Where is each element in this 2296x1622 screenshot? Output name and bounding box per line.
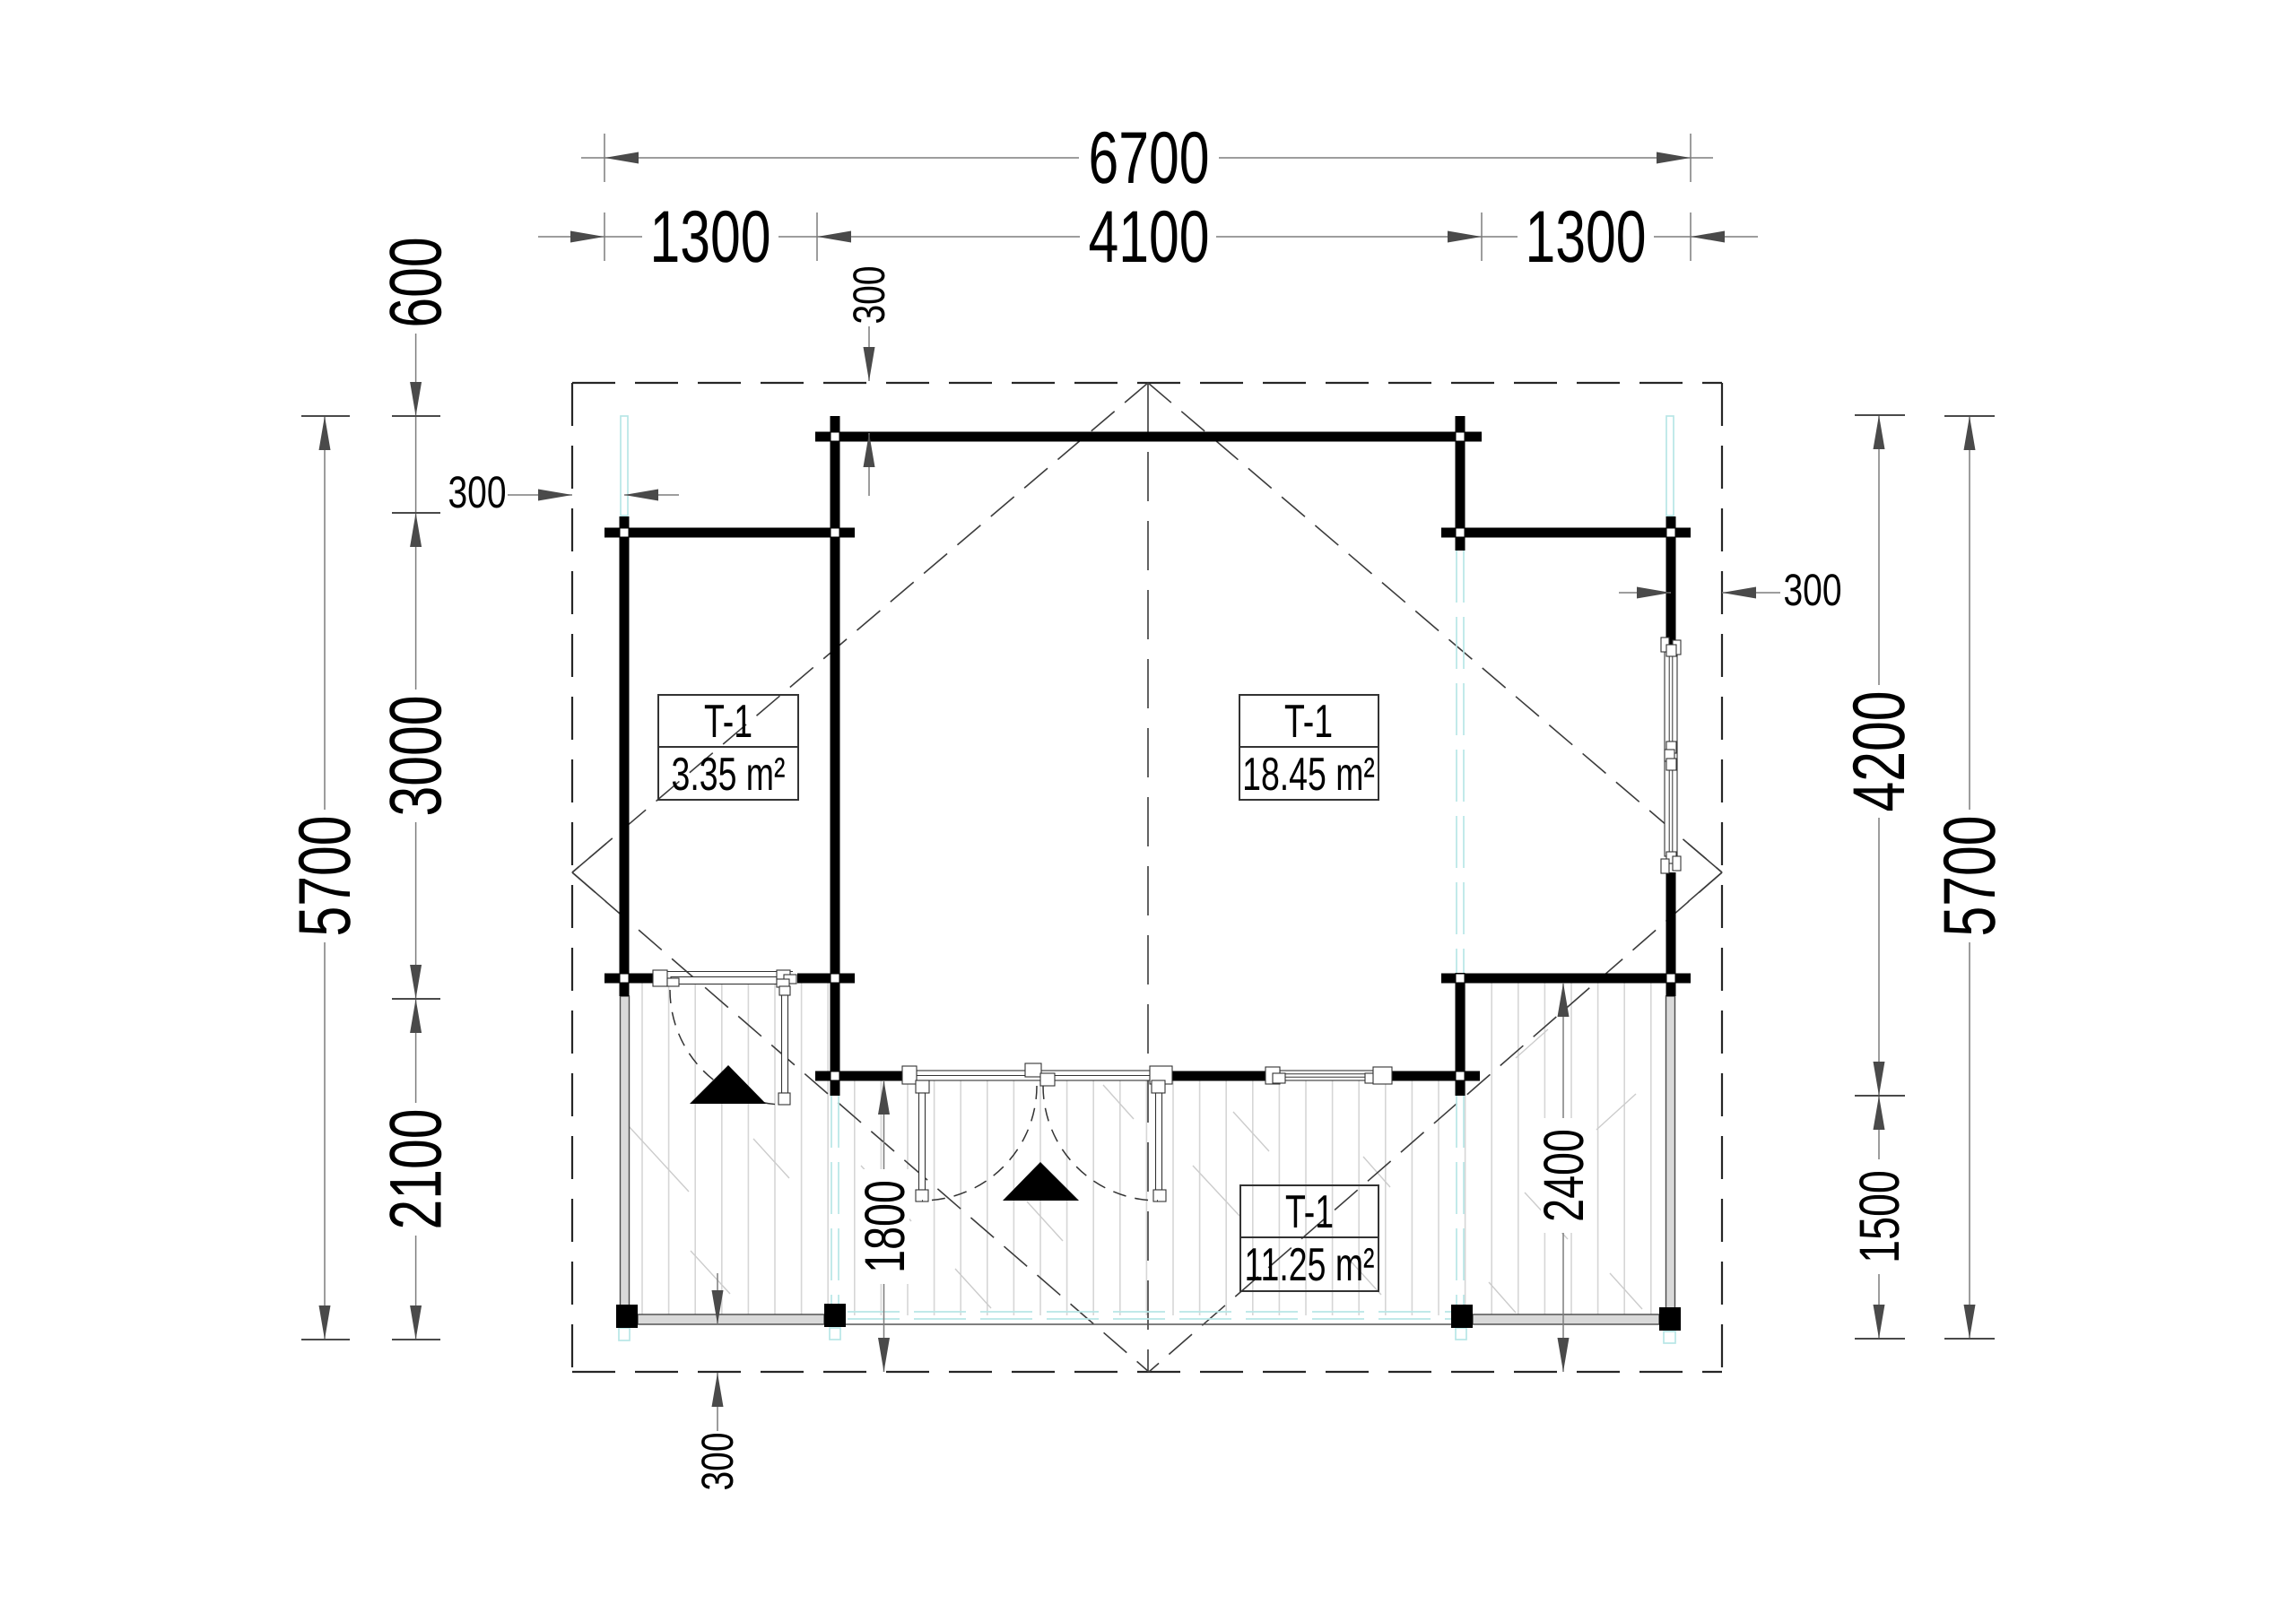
hip line ridge to west eave bbox=[572, 383, 1148, 872]
dimension arrows bbox=[319, 152, 1976, 1408]
left wing door triangle bbox=[690, 1065, 766, 1104]
cyan terrace front line bbox=[848, 1312, 1451, 1319]
central room east wall lower bbox=[1456, 973, 1465, 1096]
central french door sill bbox=[902, 1063, 1172, 1201]
top 300 bbox=[864, 347, 875, 381]
cyan wall projection left wing top bbox=[621, 416, 628, 516]
right wing east wall lower bbox=[1666, 872, 1676, 996]
posts bbox=[616, 1304, 1681, 1331]
right wing north wall bbox=[1441, 528, 1691, 538]
right 300 bbox=[1637, 587, 1671, 599]
right 300 line bbox=[1619, 592, 1780, 594]
row2 arrows bbox=[570, 231, 604, 243]
5700 left arrows bbox=[319, 416, 331, 450]
post P4 bbox=[1659, 1307, 1681, 1331]
svg-text:2100: 2100 bbox=[376, 1109, 457, 1230]
cyan open-wall line east of main room bbox=[1457, 551, 1464, 973]
left wing south wall right seg bbox=[797, 974, 855, 984]
hip line west eave to front bbox=[572, 872, 1149, 1372]
cyan footing mark post P4 bbox=[1664, 1331, 1675, 1343]
left wing door swing arc bbox=[670, 990, 782, 1105]
post P2 bbox=[824, 1304, 846, 1327]
svg-text:300: 300 bbox=[692, 1432, 743, 1490]
east wall window bbox=[1661, 638, 1681, 873]
post P1 bbox=[616, 1305, 638, 1328]
left wing door leaf bbox=[782, 995, 788, 1093]
junction white squares bbox=[621, 433, 1675, 1080]
left 300 line bbox=[508, 494, 679, 496]
svg-text:6700: 6700 bbox=[1089, 117, 1210, 199]
svg-text:11.25 m²: 11.25 m² bbox=[1245, 1239, 1375, 1291]
cyan wall projection on terrace west bbox=[831, 1096, 839, 1314]
600 arrows / shared bbox=[410, 382, 422, 416]
terrace deck board hatch bbox=[628, 968, 1651, 1327]
6700 dim line bbox=[581, 157, 1713, 159]
terrace edge boards grey bbox=[621, 996, 1675, 1324]
cyan footing mark post P1 bbox=[619, 1328, 630, 1340]
2400 line bbox=[1562, 983, 1564, 1372]
dimension ticks bbox=[301, 415, 1995, 1340]
central south wall left seg bbox=[815, 1071, 908, 1081]
right wing east wall upper bbox=[1666, 516, 1676, 645]
svg-text:T-1: T-1 bbox=[1284, 696, 1333, 748]
4200 arrows bbox=[1874, 415, 1885, 449]
roof ridge centerline bbox=[1147, 383, 1149, 1372]
3000/2100 hourglass bbox=[410, 965, 422, 999]
central room north wall bbox=[815, 432, 1482, 442]
svg-text:3000: 3000 bbox=[376, 696, 457, 817]
svg-text:5700: 5700 bbox=[1929, 816, 2011, 937]
svg-text:4200: 4200 bbox=[1839, 691, 1920, 812]
bottom 300 bbox=[712, 1290, 724, 1324]
600/3000/2100 line bbox=[415, 334, 417, 1340]
central room east wall upper bbox=[1456, 416, 1465, 551]
left 300 bbox=[538, 490, 572, 501]
svg-text:18.45 m²: 18.45 m² bbox=[1242, 749, 1375, 801]
cyan footing mark post P2 bbox=[830, 1328, 840, 1340]
left wing door sill bbox=[653, 970, 796, 1105]
hip line east eave to front bbox=[1149, 872, 1722, 1372]
row2 extension lines bbox=[604, 213, 1691, 261]
right wing south wall bbox=[1441, 974, 1691, 984]
2400 arrows bbox=[1558, 983, 1570, 1017]
central south wall window-to-junction seg bbox=[1392, 1071, 1480, 1081]
left wing north wall bbox=[604, 528, 855, 538]
diamond vertex ticks bbox=[572, 844, 1722, 902]
svg-text:T-1: T-1 bbox=[704, 696, 752, 748]
cyan footing mark post P3 bbox=[1456, 1328, 1466, 1340]
cyan wall projection right wing top bbox=[1666, 416, 1674, 516]
svg-text:1300: 1300 bbox=[1526, 196, 1647, 278]
french door triangle bbox=[1003, 1162, 1079, 1201]
dimension texts bbox=[284, 117, 2011, 1491]
bottom 300 line bbox=[717, 1273, 718, 1433]
svg-text:5700: 5700 bbox=[284, 816, 366, 937]
svg-text:1300: 1300 bbox=[650, 196, 771, 278]
roof overhang bottom edge bbox=[572, 1371, 1722, 1373]
cyan wall-projection lines bbox=[619, 416, 1675, 1343]
central room west wall bbox=[831, 416, 840, 1096]
6700 extension lines bbox=[604, 134, 1691, 182]
svg-text:600: 600 bbox=[376, 237, 457, 327]
french door leaves bbox=[919, 1093, 926, 1190]
svg-text:2400: 2400 bbox=[1533, 1129, 1596, 1222]
row2 dim line bbox=[538, 236, 1758, 238]
post P3 bbox=[1451, 1305, 1473, 1328]
svg-text:3.35 m²: 3.35 m² bbox=[672, 749, 786, 801]
svg-text:T-1: T-1 bbox=[1285, 1186, 1334, 1238]
5700 right line bbox=[1969, 416, 1970, 1339]
cyan wall projection on terrace east bbox=[1457, 1096, 1464, 1314]
roof overhang dashed outline bbox=[572, 383, 1722, 1372]
terrace front edge line middle bbox=[846, 1323, 1451, 1325]
room label boxes bbox=[658, 695, 1378, 1291]
DIMENSIONS bbox=[325, 134, 1970, 1433]
top 300 line bbox=[868, 325, 870, 496]
terrace edge board east bbox=[1666, 996, 1675, 1308]
left wing west wall bbox=[620, 516, 630, 996]
terrace edge board west bbox=[621, 996, 630, 1305]
svg-text:300: 300 bbox=[844, 265, 894, 324]
roof overhang left edge bbox=[571, 383, 573, 1372]
roof overhang right edge bbox=[1721, 383, 1723, 1372]
terrace edge board front-right bbox=[1473, 1314, 1659, 1324]
4200/1500 line bbox=[1878, 415, 1880, 1339]
left wing south wall left seg bbox=[604, 974, 661, 984]
1800 line bbox=[883, 1080, 885, 1372]
dimension label backgrounds bbox=[295, 128, 1999, 1494]
svg-text:300: 300 bbox=[448, 467, 506, 517]
5700 right arrows bbox=[1964, 416, 1976, 450]
1800 arrows bbox=[878, 1080, 890, 1115]
terrace edge board front-left bbox=[638, 1314, 824, 1324]
svg-text:300: 300 bbox=[1783, 565, 1841, 615]
svg-text:1800: 1800 bbox=[854, 1180, 917, 1273]
french door swing arcs bbox=[922, 1086, 1037, 1201]
WALLS (black 11px) bbox=[604, 416, 1691, 1096]
roof overhang top edge bbox=[572, 382, 1722, 384]
central south wall mid seg bbox=[1172, 1071, 1273, 1081]
svg-text:1500: 1500 bbox=[1848, 1170, 1911, 1263]
hip line ridge to east eave bbox=[1148, 383, 1722, 872]
svg-text:4100: 4100 bbox=[1089, 196, 1210, 278]
5700 left line bbox=[324, 416, 326, 1340]
roof hip diagonals (diamond) bbox=[572, 383, 1722, 1372]
south wall window bbox=[1265, 1067, 1392, 1084]
6700 arrows bbox=[604, 152, 639, 164]
